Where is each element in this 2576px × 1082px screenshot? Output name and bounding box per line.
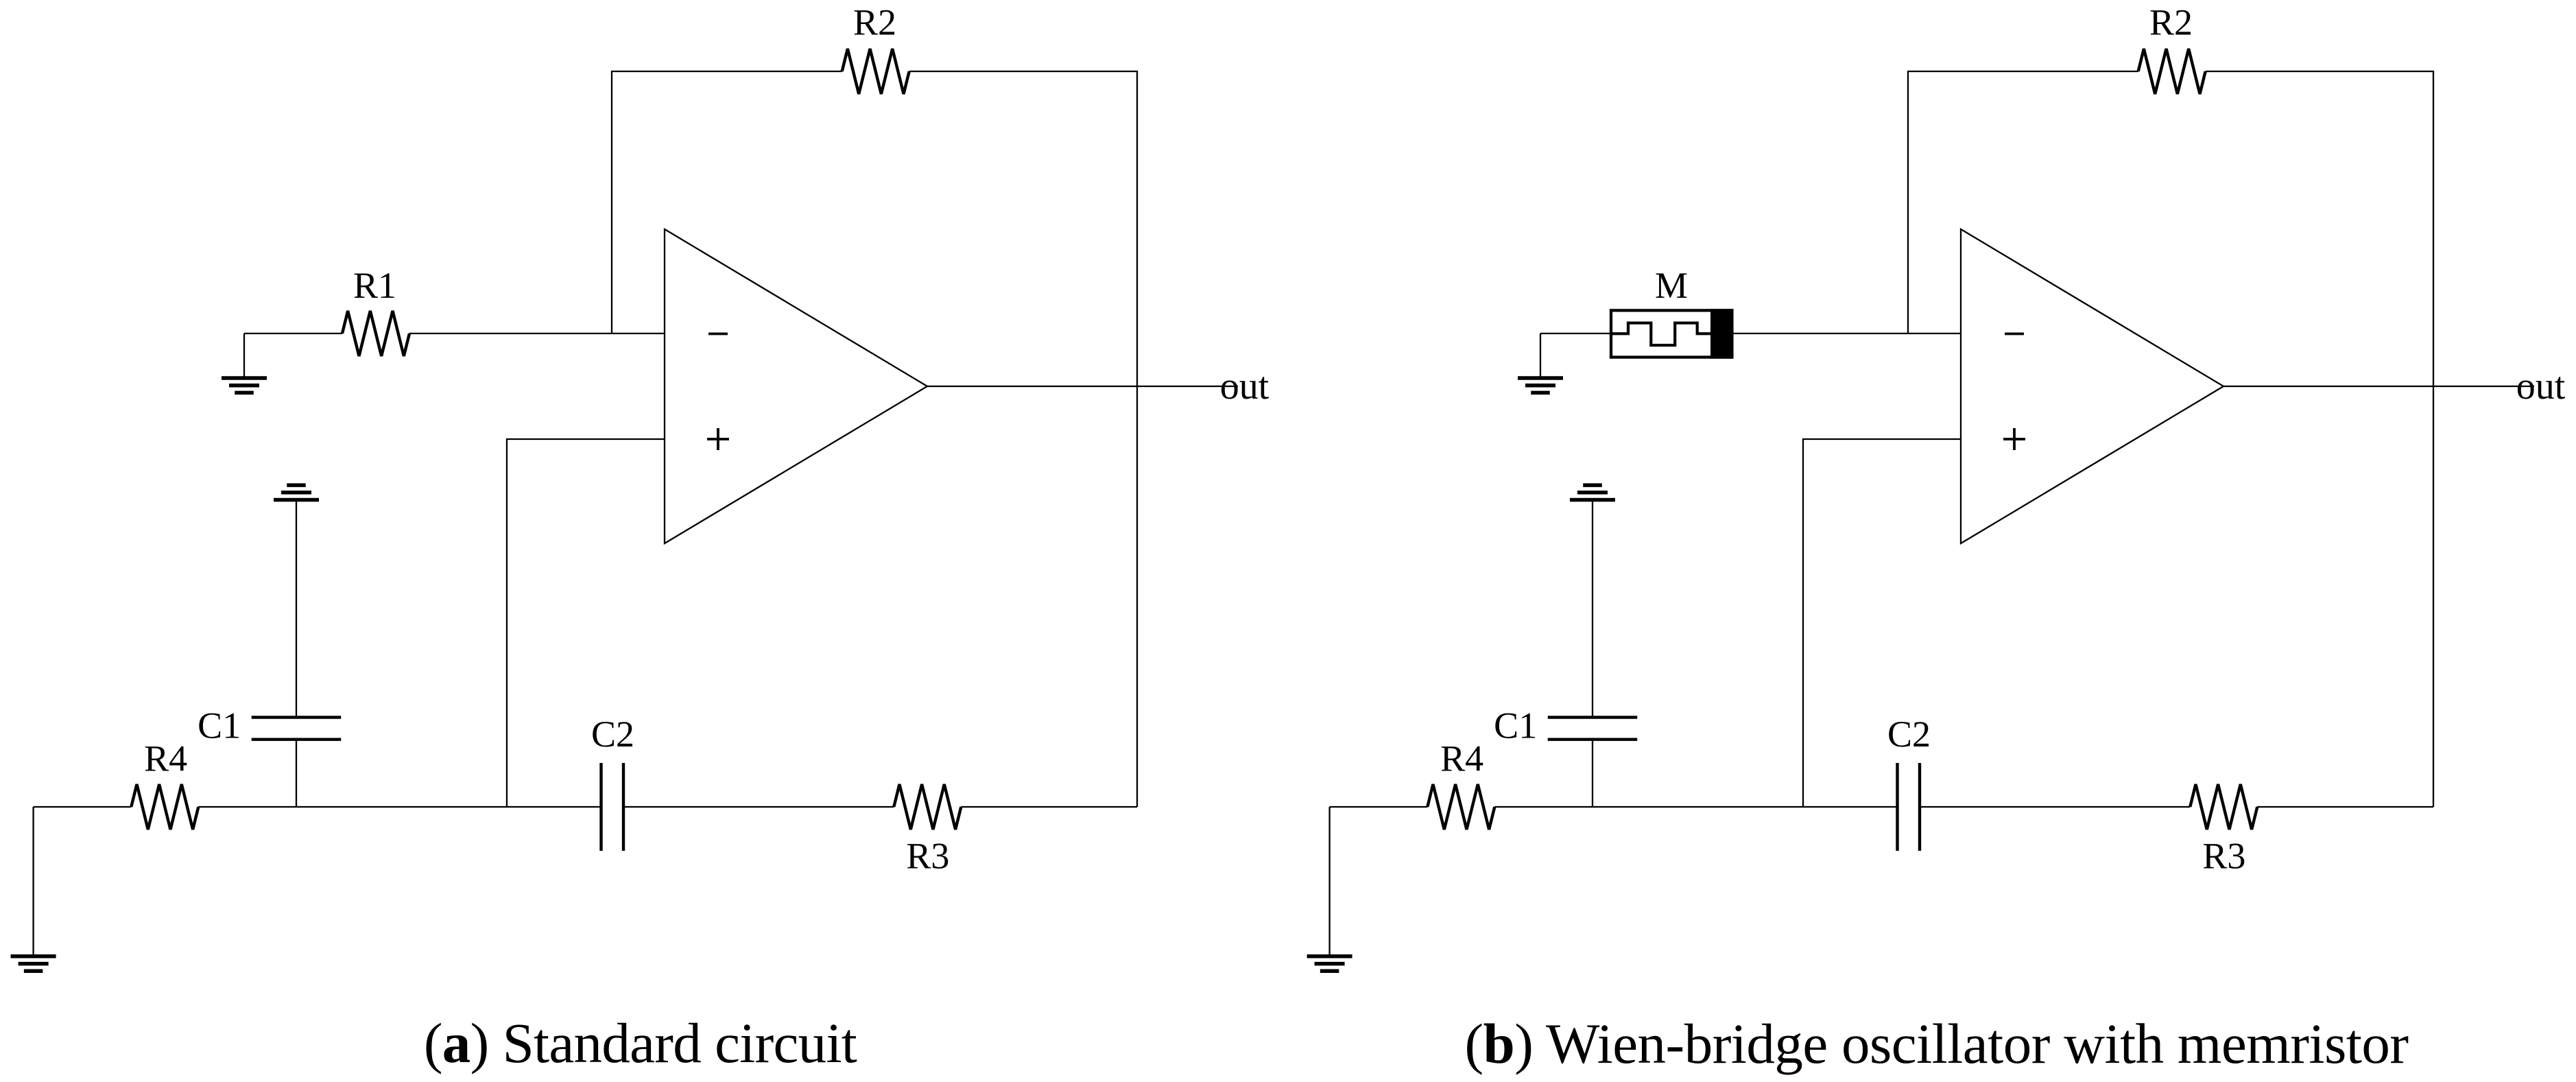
svg-text:(b) Wien-bridge oscillator wit: (b) Wien-bridge oscillator with memristo… — [1464, 1012, 2408, 1075]
svg-text:(a) Standard circuit: (a) Standard circuit — [424, 1011, 857, 1074]
svg-text:R2: R2 — [2149, 2, 2193, 43]
svg-text:R3: R3 — [2202, 836, 2245, 877]
svg-text:out: out — [1220, 365, 1269, 408]
svg-text:out: out — [2516, 365, 2566, 408]
svg-text:M: M — [1655, 265, 1688, 306]
svg-text:R1: R1 — [353, 265, 396, 306]
svg-text:C2: C2 — [591, 714, 634, 755]
svg-text:R3: R3 — [906, 836, 949, 877]
svg-text:C1: C1 — [1494, 705, 1537, 746]
svg-text:R4: R4 — [144, 738, 187, 779]
svg-text:R2: R2 — [853, 2, 896, 43]
svg-text:C2: C2 — [1887, 714, 1931, 755]
svg-text:C1: C1 — [198, 705, 241, 746]
svg-text:R4: R4 — [1440, 738, 1483, 779]
